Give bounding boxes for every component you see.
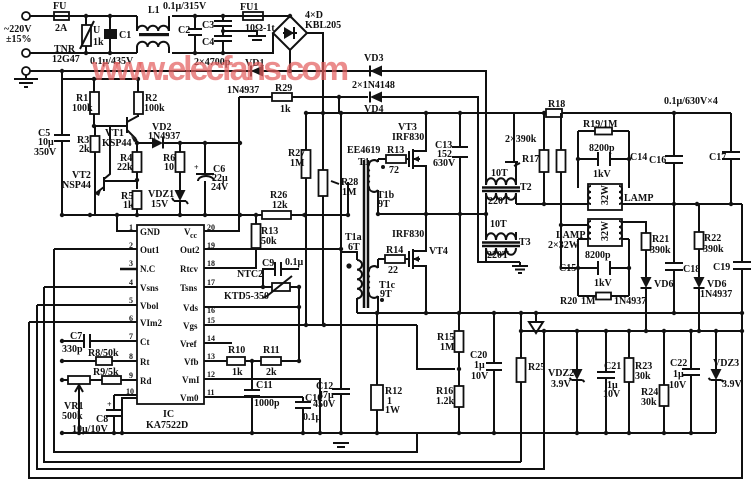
zener VDZ2 3.9V xyxy=(570,331,585,433)
capacitor C9 0.1u xyxy=(263,262,299,287)
svg-text:C14: C14 xyxy=(630,152,647,163)
junction xyxy=(84,14,88,18)
pin 5 Vbol xyxy=(37,304,137,306)
MOSFET VT3 IRF830 xyxy=(409,113,426,214)
bridge rectifier 4xD KBL205 xyxy=(273,16,307,50)
svg-text:10T: 10T xyxy=(491,168,508,179)
capacitor C21 1u 10V xyxy=(597,331,615,433)
svg-text:1M: 1M xyxy=(290,158,305,169)
wire N mid xyxy=(30,52,137,54)
svg-text:VD6: VD6 xyxy=(654,279,673,290)
svg-text:cc: cc xyxy=(190,231,198,240)
svg-text:2×1N4148: 2×1N4148 xyxy=(352,80,395,91)
resistors 2x390k xyxy=(544,113,578,268)
capacitor C19 xyxy=(733,204,751,331)
bridge minus drop xyxy=(289,50,291,71)
svg-text:1μ: 1μ xyxy=(474,360,485,371)
wire pin15 corner to R15 node xyxy=(417,325,455,369)
ground under T3 xyxy=(512,266,528,273)
svg-text:10V: 10V xyxy=(603,389,621,400)
svg-text:1M: 1M xyxy=(581,296,596,307)
capacitor C18 xyxy=(665,204,683,313)
svg-text:R11: R11 xyxy=(263,345,280,356)
diode VD6 xyxy=(694,277,705,288)
svg-text:NSP44: NSP44 xyxy=(62,180,91,191)
lamp LAMP1 32W xyxy=(588,184,622,210)
sense rail y331 xyxy=(521,330,742,332)
svg-text:72: 72 xyxy=(389,165,399,176)
svg-text:32W: 32W xyxy=(600,185,611,205)
svg-text:11: 11 xyxy=(207,388,215,397)
svg-text:10Ω-1t: 10Ω-1t xyxy=(245,23,275,34)
svg-text:13: 13 xyxy=(207,352,215,361)
wire lamp row y204 xyxy=(516,203,742,205)
svg-text:1kV: 1kV xyxy=(593,169,612,180)
resistor R14 22 gate VT4 xyxy=(378,258,409,260)
lamp LAMP2 32W xyxy=(588,219,622,246)
capacitor C1 xyxy=(109,16,111,53)
lamp2 resonant block 8200p 1kV R20 1M C15 xyxy=(578,239,629,296)
chassis ground mid of C3 C4 xyxy=(223,31,266,40)
svg-text:18: 18 xyxy=(207,259,215,268)
svg-text:EE4619: EE4619 xyxy=(347,145,380,156)
svg-text:0.1μ: 0.1μ xyxy=(303,412,322,423)
svg-text:Vfb: Vfb xyxy=(184,357,199,367)
capacitor C22 1u 10V xyxy=(682,331,700,433)
resistor R13g 72 gate VT3 xyxy=(378,158,409,160)
capacitor C2 xyxy=(188,16,202,53)
svg-text:+: + xyxy=(107,400,112,409)
svg-text:1M: 1M xyxy=(342,187,357,198)
svg-text:FU: FU xyxy=(53,1,66,12)
svg-text:C19: C19 xyxy=(713,262,730,273)
svg-text:5: 5 xyxy=(129,296,133,305)
svg-text:1k: 1k xyxy=(280,104,291,115)
svg-text:±15%: ±15% xyxy=(6,34,32,45)
svg-text:T2: T2 xyxy=(520,182,532,193)
svg-text:12k: 12k xyxy=(272,200,288,211)
svg-text:1k: 1k xyxy=(93,37,104,48)
resistor R10 1k xyxy=(227,357,245,365)
svg-text:100k: 100k xyxy=(144,103,165,114)
svg-text:1k: 1k xyxy=(123,200,134,211)
svg-text:C17: C17 xyxy=(709,152,726,163)
svg-text:330p: 330p xyxy=(62,344,83,355)
pin 3 N.C xyxy=(120,268,137,271)
svg-text:VT4: VT4 xyxy=(429,246,448,257)
pin 12 VmI xyxy=(204,379,320,433)
diode VD4 xyxy=(370,92,382,103)
capacitor C6 22u 24V xyxy=(196,143,214,215)
svg-text:16: 16 xyxy=(207,306,215,315)
svg-text:www.elecfans.com: www.elecfans.com xyxy=(91,50,348,88)
resistor R22 390k xyxy=(698,204,700,277)
zener VDZ3 3.9V xyxy=(709,331,724,433)
pin 15 Vgs xyxy=(204,324,417,326)
svg-text:10V: 10V xyxy=(669,380,687,391)
svg-text:U: U xyxy=(93,25,100,36)
resistor R16 1.2k xyxy=(455,386,464,407)
svg-text:0.1μ/630V×4: 0.1μ/630V×4 xyxy=(664,96,718,107)
resistor R1 100k xyxy=(93,79,95,126)
svg-text:R10: R10 xyxy=(228,345,245,356)
transformer T1 core xyxy=(364,160,368,308)
wire Vcc feed y97 xyxy=(239,97,486,262)
fuse FU1 xyxy=(243,12,263,20)
svg-text:N.C: N.C xyxy=(140,264,155,274)
fuse FU xyxy=(54,12,69,20)
resistor R2 100k xyxy=(137,79,139,117)
svg-text:1N4937: 1N4937 xyxy=(614,296,646,307)
svg-text:Rtcv: Rtcv xyxy=(180,264,198,274)
halfbridge mid rail y214 xyxy=(378,213,486,215)
transistor VT2 NSP44 xyxy=(96,126,137,193)
svg-text:C18: C18 xyxy=(683,264,700,275)
svg-text:Out1: Out1 xyxy=(140,245,160,255)
svg-text:0.1μ: 0.1μ xyxy=(285,257,304,268)
potentiometer VR1 500k xyxy=(68,376,90,384)
svg-text:1k: 1k xyxy=(232,367,243,378)
resistor R3 2k xyxy=(94,126,96,215)
svg-text:50k: 50k xyxy=(261,236,277,247)
feedback loop pin6 xyxy=(29,322,742,478)
svg-text:Tsns: Tsns xyxy=(180,283,198,293)
svg-text:24V: 24V xyxy=(211,182,229,193)
svg-text:3.9V: 3.9V xyxy=(722,379,743,390)
bridge plus drop xyxy=(307,33,323,114)
svg-text:20: 20 xyxy=(207,223,215,232)
pin 20 Vcc xyxy=(204,230,239,232)
wire earth long xyxy=(30,70,486,72)
svg-text:22: 22 xyxy=(388,265,398,276)
svg-text:2k: 2k xyxy=(266,367,277,378)
svg-text:R22: R22 xyxy=(704,233,721,244)
pin 19 Out2 xyxy=(204,248,341,250)
AC input terminal top xyxy=(22,12,30,20)
svg-text:1N4937: 1N4937 xyxy=(148,131,180,142)
svg-text:2A: 2A xyxy=(55,23,68,34)
resistor R25 xyxy=(520,313,522,462)
resistor R5 1k xyxy=(133,191,142,209)
svg-text:Vds: Vds xyxy=(183,303,199,313)
svg-text:8: 8 xyxy=(129,352,133,361)
feedback loop pin2 xyxy=(54,249,417,452)
svg-text:630V: 630V xyxy=(433,158,456,169)
svg-text:19: 19 xyxy=(207,241,215,250)
wire lamp row y204 dots xyxy=(542,202,546,206)
svg-text:12: 12 xyxy=(207,370,215,379)
svg-text:IRF830: IRF830 xyxy=(392,229,424,240)
svg-text:220T: 220T xyxy=(487,250,509,261)
inductor L1 common-mode choke xyxy=(137,16,169,31)
svg-text:6T: 6T xyxy=(348,242,360,253)
svg-text:C4: C4 xyxy=(202,37,214,48)
pin 9 Rd xyxy=(62,379,137,381)
svg-text:6: 6 xyxy=(129,314,133,323)
resistor R6 10 xyxy=(179,143,181,190)
svg-text:3.9V: 3.9V xyxy=(551,379,572,390)
svg-text:15V: 15V xyxy=(151,199,169,210)
ground mark below C12 xyxy=(333,443,349,447)
svg-text:1kV: 1kV xyxy=(594,278,613,289)
svg-text:22k: 22k xyxy=(117,162,133,173)
AC input terminal mid xyxy=(22,49,30,57)
svg-text:2×32W: 2×32W xyxy=(548,240,579,251)
svg-text:C16: C16 xyxy=(649,155,666,166)
svg-text:R19/1M: R19/1M xyxy=(583,119,618,130)
svg-text:4: 4 xyxy=(129,278,133,287)
svg-text:NTC2: NTC2 xyxy=(237,269,263,280)
svg-text:9: 9 xyxy=(129,371,133,380)
pin 8 Rt xyxy=(62,360,137,362)
svg-text:KTD5-350: KTD5-350 xyxy=(224,291,269,302)
feedback loop pin5 xyxy=(37,305,544,469)
svg-text:C3: C3 xyxy=(202,20,214,31)
wire L top xyxy=(30,15,137,17)
svg-text:R20: R20 xyxy=(560,296,577,307)
svg-text:7: 7 xyxy=(129,332,133,341)
svg-text:10: 10 xyxy=(164,162,174,173)
svg-text:VDZ2: VDZ2 xyxy=(548,368,574,379)
capacitor C10 0.1u xyxy=(295,397,311,433)
svg-text:Vgs: Vgs xyxy=(183,321,198,331)
pin 6 VIm2 xyxy=(29,321,137,323)
transformer T2 xyxy=(486,178,516,185)
svg-text:Out2: Out2 xyxy=(180,245,200,255)
svg-text:1M: 1M xyxy=(440,342,455,353)
resistor R29 xyxy=(272,93,292,101)
svg-text:8200p: 8200p xyxy=(585,250,611,261)
svg-text:1W: 1W xyxy=(385,405,400,416)
svg-text:14: 14 xyxy=(207,334,215,343)
resistor R21 390k xyxy=(642,233,651,250)
svg-text:C9: C9 xyxy=(262,258,274,269)
svg-text:3: 3 xyxy=(129,259,133,268)
svg-text:IRF830: IRF830 xyxy=(392,132,424,143)
arrow marker on rail y215 xyxy=(300,212,307,219)
bottom rail y433 xyxy=(60,432,716,434)
wire lamp2 top right to R21 xyxy=(622,222,646,233)
transformer T3 xyxy=(485,214,487,240)
svg-text:10: 10 xyxy=(126,387,134,396)
svg-text:IC: IC xyxy=(163,409,174,420)
svg-text:C1: C1 xyxy=(119,30,131,41)
resistor R24 30k xyxy=(663,331,665,433)
varistor TNR 12G47 xyxy=(82,25,91,46)
svg-text:GND: GND xyxy=(140,227,161,237)
svg-text:VIm2: VIm2 xyxy=(140,318,162,328)
svg-text:C11: C11 xyxy=(256,380,273,391)
svg-text:500k: 500k xyxy=(62,411,83,422)
resistor R28 1M xyxy=(322,114,324,325)
T1 winding T1a 6T primary xyxy=(357,260,362,298)
svg-text:R25: R25 xyxy=(528,362,545,373)
pin 2 Out1 xyxy=(54,248,137,250)
svg-text:8200p: 8200p xyxy=(589,143,615,154)
svg-text:390k: 390k xyxy=(703,244,724,255)
svg-text:12G47: 12G47 xyxy=(52,54,80,65)
svg-text:KBL205: KBL205 xyxy=(305,20,341,31)
svg-text:R17: R17 xyxy=(522,154,539,165)
svg-text:LAMP: LAMP xyxy=(624,193,653,204)
resistor R4 22k xyxy=(136,143,138,189)
resistor R12 1ohm 1W xyxy=(376,313,378,433)
resistor R27 1M xyxy=(305,113,307,325)
capacitor C7 330p xyxy=(84,334,90,348)
svg-text:C7: C7 xyxy=(70,331,82,342)
svg-text:R14: R14 xyxy=(386,245,403,256)
svg-text:R13: R13 xyxy=(387,145,404,156)
capacitor C3 xyxy=(214,16,232,36)
svg-text:R9/5k: R9/5k xyxy=(93,367,119,378)
wire lamp2 left pins xyxy=(561,224,588,226)
svg-text:17: 17 xyxy=(207,278,215,287)
IC U1 KA7522D box xyxy=(137,225,204,404)
resistor R13 50k vertical xyxy=(252,224,261,248)
pin 13 Vfb xyxy=(204,360,299,362)
svg-text:9T: 9T xyxy=(378,199,390,210)
svg-text:2×390k: 2×390k xyxy=(505,134,537,145)
startup rail y79 xyxy=(62,71,139,79)
pin 7 Ct xyxy=(62,340,137,342)
svg-text:Vref: Vref xyxy=(180,339,198,349)
resistor R15 1M xyxy=(458,313,460,386)
diode VD5 xyxy=(641,277,652,288)
stub x348 xyxy=(347,182,349,215)
AC input terminal earth xyxy=(22,67,30,75)
svg-text:R21: R21 xyxy=(652,234,669,245)
svg-text:30k: 30k xyxy=(635,371,651,382)
svg-text:1μ: 1μ xyxy=(673,369,684,380)
feedback loop pin4 xyxy=(44,287,521,462)
svg-text:L1: L1 xyxy=(148,5,160,16)
pin 10 xyxy=(114,395,137,433)
svg-text:R8/50k: R8/50k xyxy=(88,348,119,359)
svg-text:10V: 10V xyxy=(471,371,489,382)
svg-text:1000p: 1000p xyxy=(254,398,280,409)
svg-text:2k: 2k xyxy=(79,144,90,155)
B+ rail y113 xyxy=(306,112,731,114)
svg-text:2: 2 xyxy=(129,241,133,250)
svg-text:220T: 220T xyxy=(488,196,510,207)
capacitor C11 1000p xyxy=(244,361,260,433)
resistor R9 5k xyxy=(102,376,121,384)
svg-text:KSP44: KSP44 xyxy=(102,138,131,149)
capacitor C17 xyxy=(722,113,740,204)
capacitor C8 10u 10V xyxy=(106,395,122,433)
svg-text:390k: 390k xyxy=(650,245,671,256)
pin 4 Vsns xyxy=(44,286,137,288)
pin 1 GND xyxy=(117,215,137,231)
svg-text:C22: C22 xyxy=(670,358,687,369)
svg-text:C2: C2 xyxy=(178,25,190,36)
svg-text:0.1μ/315V: 0.1μ/315V xyxy=(163,1,207,12)
svg-text:C21: C21 xyxy=(604,361,621,372)
ground (input earth) xyxy=(14,75,38,87)
capacitor C16 xyxy=(665,113,683,204)
capacitor C4 xyxy=(214,36,232,53)
svg-text:Rt: Rt xyxy=(140,357,150,367)
pin 11 Vm0 xyxy=(204,396,303,398)
svg-text:Vm0: Vm0 xyxy=(180,393,199,403)
svg-text:350V: 350V xyxy=(34,147,57,158)
svg-text:VDZ3: VDZ3 xyxy=(713,358,739,369)
wire C13 column down to source rail xyxy=(459,214,461,313)
vertical Vcc column x240 xyxy=(204,97,239,231)
pin 16 Vds xyxy=(204,306,299,308)
svg-text:15: 15 xyxy=(207,316,215,325)
T1 winding T1c 9T xyxy=(368,266,378,298)
svg-text:Vbol: Vbol xyxy=(140,301,159,311)
pin 17 Tsns xyxy=(204,286,263,288)
svg-text:T3: T3 xyxy=(519,237,531,248)
svg-text:32W: 32W xyxy=(600,221,611,241)
local common rail y215 xyxy=(62,214,348,216)
ground symbol mid xyxy=(529,313,543,333)
emitter join xyxy=(136,139,137,143)
svg-text:Ct: Ct xyxy=(140,337,150,347)
diode VD2 1N4937 xyxy=(137,142,240,144)
capacitor C12 47u 450V xyxy=(332,383,350,433)
diode VD3 xyxy=(382,71,486,185)
resistor R8 50k xyxy=(96,357,112,365)
svg-text:100k: 100k xyxy=(72,103,93,114)
wire x341 column xyxy=(339,97,341,389)
pin 14 Vref xyxy=(204,342,232,344)
svg-text:R18: R18 xyxy=(548,99,565,110)
svg-text:9T: 9T xyxy=(380,289,392,300)
svg-text:1: 1 xyxy=(129,223,133,232)
capacitor C20 1u 10V xyxy=(486,313,502,433)
T1 winding T1b 9T xyxy=(368,160,378,192)
svg-text:1.2k: 1.2k xyxy=(436,396,455,407)
svg-text:450V: 450V xyxy=(313,399,336,410)
svg-text:Rd: Rd xyxy=(140,376,152,386)
svg-text:C15: C15 xyxy=(559,263,576,274)
resistor R23 30k xyxy=(628,331,630,433)
thermistor NTC2 KTD5-350 xyxy=(263,287,299,361)
MOSFET VT4 IRF830 xyxy=(409,214,426,313)
capacitor C13 152 630V xyxy=(452,113,468,214)
resistor R18 xyxy=(546,109,562,117)
svg-text:FU1: FU1 xyxy=(240,2,258,13)
capacitor C5 10u 350V xyxy=(54,79,70,215)
svg-text:+: + xyxy=(194,163,199,172)
wire mid to bridge xyxy=(172,33,273,53)
svg-text:1N4937: 1N4937 xyxy=(700,289,732,300)
pin 18 Rtcv xyxy=(204,248,256,268)
resistor R26 12k xyxy=(262,211,291,219)
lamp1 resonant block R19 1M 8200p 1kV C14 xyxy=(578,131,629,188)
svg-text:Vsns: Vsns xyxy=(140,283,159,293)
svg-text:30k: 30k xyxy=(641,397,657,408)
svg-text:10T: 10T xyxy=(490,219,507,230)
svg-text:VmI: VmI xyxy=(182,375,200,385)
zener VDZ1 15V xyxy=(175,190,186,201)
source rail y313 xyxy=(357,312,742,314)
svg-text:KA7522D: KA7522D xyxy=(146,420,188,431)
svg-text:VD3: VD3 xyxy=(364,53,383,64)
resistor R11 2k xyxy=(261,357,281,365)
transistor VT1 KSP44 xyxy=(94,116,138,139)
wire top to bridge xyxy=(172,15,290,17)
diode VD1 xyxy=(251,66,263,77)
